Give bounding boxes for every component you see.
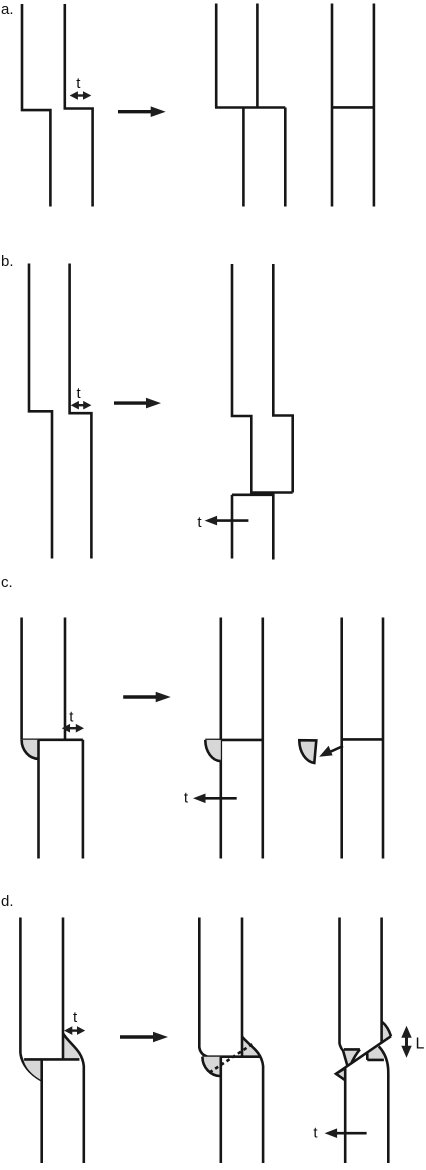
flap2 right curve d right fig: [351, 1049, 360, 1063]
svg-text:t: t: [77, 385, 82, 402]
detached flap c right fig: [299, 740, 316, 763]
dike wall b left-before line1: [29, 264, 52, 559]
label t arrow c mid: [193, 794, 237, 804]
svg-text:t: t: [69, 709, 74, 726]
flap1 fill d right fig: [382, 1022, 391, 1043]
fault line a right fig: [332, 106, 374, 109]
dike wall c left-before top-left: [20, 618, 23, 740]
flap arc c left fig: [22, 740, 39, 759]
dike wall d right top-left with drag: [340, 918, 348, 1066]
double arrow L d right fig: [401, 1026, 411, 1058]
fault line b lower-left: [232, 493, 273, 496]
dike wall d right bottom-right with drag: [379, 1046, 389, 1163]
drag curve d left fig left: [20, 1054, 41, 1081]
drag curve and wall d mid right: [242, 1037, 263, 1163]
dike wall d left-before top-left: [19, 918, 22, 1054]
flap3 left edge d right fig: [366, 1053, 369, 1060]
dike wall d mid bottom-left: [220, 1057, 223, 1163]
flap3 fill d right fig: [367, 1046, 384, 1060]
dike wall a mid top-right: [256, 4, 259, 108]
dike wall c mid left: [220, 618, 223, 859]
dike wall a mid bottom-right: [284, 108, 287, 207]
dike wall c mid right: [261, 618, 264, 859]
flap fill c mid: [205, 740, 221, 761]
dike wall c left-before bottom-right: [82, 740, 85, 859]
svg-text:c.: c.: [1, 574, 13, 591]
label t arrow b: [205, 516, 249, 526]
flap2 fill d right fig: [343, 1049, 360, 1065]
double arrow t panel a: [70, 91, 92, 100]
dike wall c right fig right: [382, 618, 385, 859]
double arrow t panel d: [64, 1026, 85, 1035]
flap fill d mid right: [242, 1037, 259, 1057]
panel arrow a: [118, 106, 166, 117]
dike wall d mid top-left with elbow: [199, 918, 207, 1057]
svg-text:t: t: [197, 514, 202, 531]
flap4 triangle d right fig: [336, 1068, 345, 1080]
dike wall b right top-right with step: [273, 264, 292, 493]
double arrow t panel b: [71, 401, 92, 410]
svg-text:a.: a.: [1, 1, 14, 18]
dike wall a mid top-left: [215, 4, 218, 108]
svg-text:L: L: [416, 1036, 425, 1053]
fault line c left fig: [22, 738, 83, 741]
dike wall c right fig left: [340, 618, 343, 859]
dashed fault plane d mid: [210, 1044, 253, 1073]
dike wall b right top-left with step: [232, 264, 251, 495]
dike wall c left-before bottom-left: [37, 740, 40, 859]
fault line c right fig: [342, 738, 383, 741]
svg-text:d.: d.: [1, 893, 14, 910]
flap1 curve d right fig: [382, 1022, 391, 1037]
panel arrow b: [114, 398, 161, 409]
flap2 top edge d right fig: [344, 1048, 360, 1051]
dike wall a mid bottom-left: [242, 108, 245, 207]
dike wall d right top-right: [380, 918, 383, 1043]
dike wall a right fig left: [331, 4, 334, 207]
flap fill d left fig right: [63, 1034, 80, 1060]
dike wall d right bottom-left: [344, 1068, 347, 1164]
svg-text:t: t: [184, 789, 189, 806]
fault line d left fig: [24, 1058, 79, 1061]
svg-text:b.: b.: [1, 253, 14, 270]
svg-text:t: t: [313, 1125, 318, 1142]
fault line d mid: [202, 1055, 259, 1058]
drag curve and wall d left fig right: [63, 1034, 84, 1164]
flap fill c left fig: [22, 740, 39, 759]
svg-text:t: t: [76, 75, 81, 92]
dike wall d left-before bottom-left: [40, 1059, 43, 1163]
label t arrow d right fig: [325, 1128, 367, 1138]
double arrow t panel c: [62, 724, 84, 733]
dike wall d left-before top-right: [62, 918, 65, 1060]
flap fill d mid left: [202, 1057, 220, 1076]
dike wall b left-before line2: [70, 264, 92, 559]
arrow to flap c right fig: [319, 746, 343, 757]
flap arc c mid: [205, 740, 221, 761]
dike wall b right bottom-right: [272, 493, 275, 560]
dike wall b right bottom-left: [231, 495, 234, 559]
dike wall a left-before line2: [65, 4, 93, 207]
dike wall c left-before top-right: [64, 618, 67, 740]
dike wall a left-before line1: [22, 4, 50, 207]
dike wall d mid top-right: [241, 918, 244, 1057]
svg-text:t: t: [73, 1009, 78, 1026]
fault line a mid: [215, 106, 285, 109]
flap3 bottom edge d right fig: [367, 1059, 384, 1062]
fault plane d right fig: [336, 1036, 391, 1074]
fault line b lower-right: [251, 491, 292, 494]
dike wall a right fig right: [373, 4, 376, 207]
fault line c mid: [205, 739, 262, 742]
flap arc d mid left: [202, 1057, 220, 1076]
panel arrow c: [123, 692, 171, 703]
flap fill d left fig left: [23, 1059, 41, 1080]
panel arrow d: [120, 1032, 168, 1043]
